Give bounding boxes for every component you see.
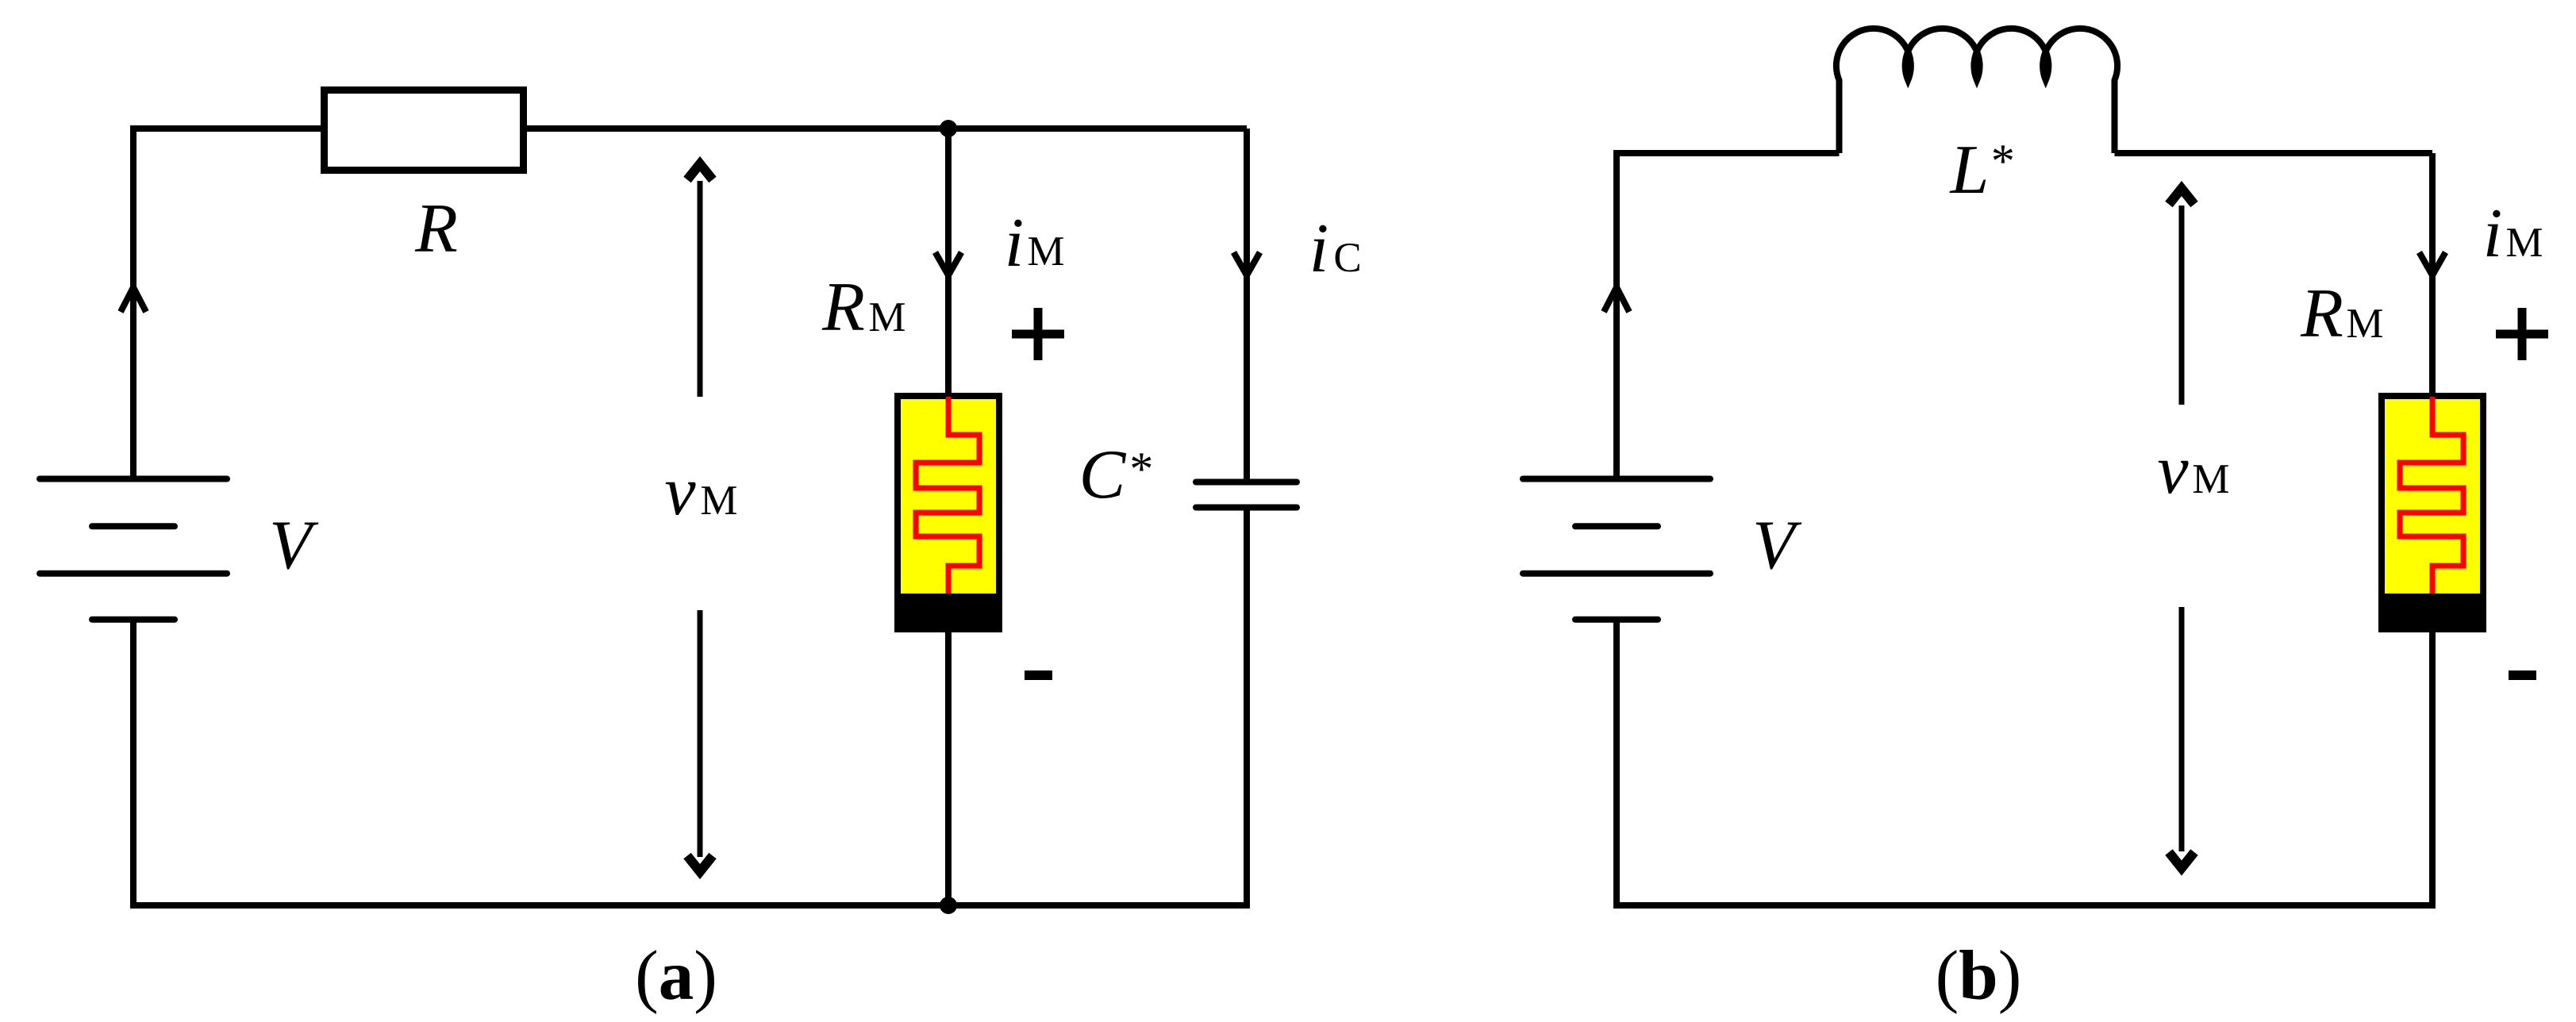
wire: right branch lower (a) [1244,510,1250,905]
memristor RM symbol (a): red meander [916,397,979,597]
inductor L* [1836,29,2117,153]
battery V plate 3 long (a) [40,571,227,577]
arrow: current iM arrowhead (a) [936,252,962,275]
wire: top rail right of inductor (b) [2115,150,2433,156]
wire: right branch upper (a) [1244,129,1250,479]
arrow: current iM arrowhead (b) [2420,252,2446,275]
svg-text:V: V [269,507,319,584]
svg-text:C: C [1079,436,1127,513]
arrow: current iC arrowhead (a) [1234,252,1260,275]
svg-text:L: L [1949,132,1990,209]
annotation: vM down arrowhead (a) [687,856,713,872]
wire: memristor bottom lead (b) [2429,629,2436,905]
memristor RM symbol (b): black bottom electrode [2382,597,2483,629]
arrow: battery current arrowhead (b) [1604,287,1629,312]
annotation: vM up arrowhead (a) [687,164,713,180]
wire: battery V top lead (b) [1613,153,1620,482]
wire: bottom rail (b) [1613,902,2436,909]
svg-text:M: M [2192,456,2229,502]
annotation: vM down arrowhead (b) [2169,852,2194,868]
battery V plate 2 short (b) [1575,523,1658,529]
battery V plate 1 long (a) [40,476,227,482]
memristor RM symbol (b): yellow body [2382,396,2483,629]
svg-text:i: i [2483,195,2502,272]
battery V plate 4 short (b) [1575,617,1658,623]
wire: bottom rail (a) [130,902,1250,909]
annotation: vM down arrow shaft (b) [2179,607,2185,851]
wire: memristor top lead (a) [945,129,952,397]
wire: top rail left of resistor (a) [130,125,324,132]
svg-text:M: M [868,294,905,340]
battery V plate 2 short (a) [92,523,175,529]
svg-text:i: i [1309,210,1328,287]
arrow: battery current arrowhead (a) [121,287,146,312]
label minus sign (a) [1025,670,1052,680]
capacitor C* top plate [1196,479,1297,486]
wire: battery bottom lead (a) [130,620,136,905]
svg-text:R: R [2300,275,2343,352]
annotation: vM up arrow shaft (b) [2179,206,2185,405]
svg-text:C: C [1333,235,1361,281]
battery V plate 3 long (b) [1523,571,1710,577]
svg-text:*: * [1989,135,2013,187]
svg-text:*: * [1128,443,1152,495]
memristor RM symbol (a): yellow body [898,396,999,629]
annotation: vM up arrow shaft (a) [698,181,703,397]
memristor RM symbol (b): red meander [2400,397,2463,597]
resistor R [325,90,524,171]
label plus sign (a) [1012,308,1064,360]
svg-text:M: M [1027,229,1064,275]
node: junction dot bottom (a) [940,897,957,914]
wire: top rail left of inductor (b) [1613,150,1840,156]
wire: battery V1 top lead (a) [130,129,136,482]
svg-text:M: M [700,478,737,524]
svg-text:V: V [1752,507,1802,584]
capacitor C* bottom plate [1196,505,1297,511]
svg-text:R: R [821,269,865,346]
wire: memristor top lead (b) [2429,153,2436,397]
node: junction dot top (a) [940,120,957,137]
battery V plate 1 long (b) [1523,476,1710,482]
wire: memristor bottom lead (a) [945,629,952,905]
annotation: vM down arrow shaft (a) [698,610,703,857]
svg-text:M: M [2505,220,2543,266]
label plus sign (b) [2496,308,2548,360]
svg-text:i: i [1005,205,1024,282]
label minus sign (b) [2509,670,2536,680]
wire: battery bottom lead (b) [1613,620,1620,905]
svg-text:v: v [664,453,696,530]
svg-text:(a): (a) [635,937,717,1015]
svg-text:v: v [2157,432,2189,509]
svg-text:(b): (b) [1936,937,2022,1015]
memristor RM symbol (a): black bottom electrode [898,597,999,629]
wire: top rail right of resistor (a) [524,125,1247,132]
svg-text:R: R [414,190,458,267]
annotation: vM up arrowhead (b) [2169,189,2194,205]
battery V plate 4 short (a) [92,617,175,623]
svg-text:M: M [2346,301,2383,347]
